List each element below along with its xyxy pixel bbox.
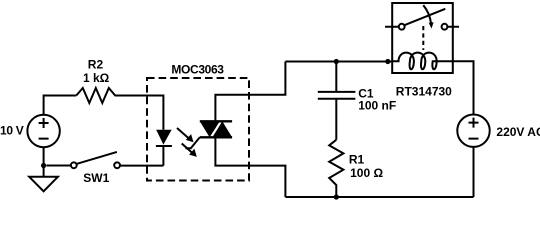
svg-text:1 kΩ: 1 kΩ bbox=[83, 71, 110, 85]
svg-text:SW1: SW1 bbox=[83, 171, 109, 185]
svg-text:10 V: 10 V bbox=[0, 124, 24, 138]
svg-text:R2: R2 bbox=[88, 57, 104, 71]
svg-text:100 nF: 100 nF bbox=[358, 99, 396, 113]
svg-text:MOC3063: MOC3063 bbox=[171, 63, 224, 77]
svg-text:100 Ω: 100 Ω bbox=[350, 166, 383, 180]
svg-text:RT314730: RT314730 bbox=[396, 85, 452, 99]
svg-text:R1: R1 bbox=[349, 153, 365, 167]
svg-text:220V AC: 220V AC bbox=[496, 125, 540, 139]
